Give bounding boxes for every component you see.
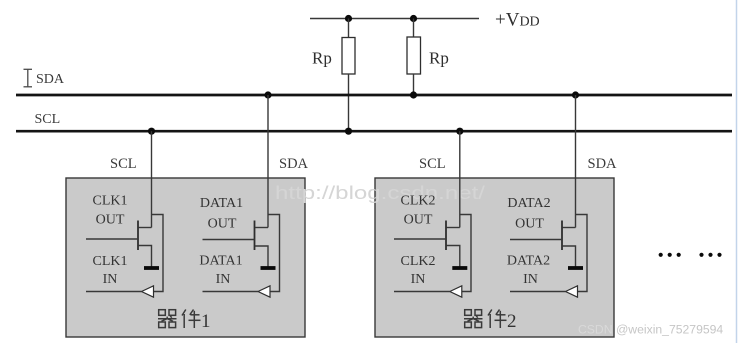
wire: DATA2 IN lead <box>510 291 566 293</box>
node: SCL / CLK1 pin junction <box>148 128 155 135</box>
svg-text:CLK1: CLK1 <box>93 254 128 269</box>
node: SDA / DATA2 pin junction <box>572 91 579 98</box>
svg-text:DATA1: DATA1 <box>200 196 243 211</box>
buffer U4 (DATA2 IN, points left) <box>566 286 578 297</box>
wire: CLK1 IN lead <box>86 291 142 293</box>
CELL: CLK1 driver/receiver <box>86 131 163 297</box>
wire: DATA2 pin from SDA bus to transistor Q4 drain (crosses SCL, no dot) <box>575 95 577 228</box>
node: SDA / Rp2 junction <box>410 91 417 98</box>
wire: CLK1 pin from SCL bus to transistor Q1 drain <box>151 131 153 227</box>
wire: Q1 source lead <box>139 246 152 267</box>
wire: jog from pin to buffer rail <box>152 215 164 292</box>
wire: DATA2 OUT gate lead <box>510 239 562 241</box>
svg-text:DATA1: DATA1 <box>199 254 242 269</box>
wire: Q4 drain lead <box>563 227 576 229</box>
svg-text:SCL: SCL <box>419 156 446 172</box>
node: SCL / CLK2 pin junction <box>456 128 463 135</box>
wire: Q4 source lead <box>563 246 576 267</box>
transistor Q4 gate bar <box>561 221 563 251</box>
svg-text:OUT: OUT <box>515 217 544 232</box>
node: junction VDD / Rp1 <box>345 15 352 22</box>
buffer U3 (CLK2 IN, points left) <box>450 286 462 297</box>
wire: jog from pin to buffer rail <box>460 215 471 292</box>
svg-text:SCL: SCL <box>35 112 61 127</box>
wire: jog from pin to buffer rail <box>268 215 280 292</box>
svg-text:DATA2: DATA2 <box>507 196 550 211</box>
wire: CLK2 OUT gate lead <box>394 238 446 240</box>
svg-text:OUT: OUT <box>404 213 433 228</box>
ground (Q1 source) <box>144 266 159 270</box>
device box 器件1 <box>66 178 305 337</box>
svg-text:SDA: SDA <box>279 156 309 172</box>
svg-text:2: 2 <box>507 311 517 332</box>
svg-text:IN: IN <box>216 272 231 287</box>
svg-text:OUT: OUT <box>96 213 125 228</box>
CELL: CLK2 driver/receiver <box>394 131 471 297</box>
ellipsis (more devices, group 2) <box>699 253 721 257</box>
wire: Rp2 top lead <box>413 19 415 38</box>
svg-text:1: 1 <box>201 311 211 332</box>
wire: Q2 drain lead <box>255 227 268 229</box>
transistor Q2 gate bar <box>254 221 256 251</box>
transistor Q1 gate bar <box>137 221 139 251</box>
ground (Q2 source) <box>261 266 276 270</box>
svg-text:CLK2: CLK2 <box>401 254 436 269</box>
transistor Q3 gate bar <box>445 221 447 251</box>
ellipsis (more devices, group 1) <box>659 253 681 257</box>
wire: CLK2 pin from SCL bus to transistor Q3 drain <box>459 131 461 227</box>
wire: Rp1 bottom lead down to SCL bus (crosses SDA, no dot) <box>348 74 350 131</box>
svg-text:Rp: Rp <box>429 49 449 68</box>
svg-text:CLK2: CLK2 <box>401 194 436 209</box>
wire: DATA1 OUT gate lead <box>203 239 255 241</box>
node: SDA / DATA1 pin junction <box>264 91 271 98</box>
text cursor I-beam <box>24 69 33 87</box>
svg-text:http://blog.csdn.net/: http://blog.csdn.net/ <box>275 183 485 203</box>
buffer U2 (DATA1 IN, points left) <box>258 286 270 297</box>
wire: +VDD supply rail <box>310 18 479 20</box>
svg-text:CLK1: CLK1 <box>93 194 128 209</box>
CELL: DATA1 driver/receiver <box>199 95 279 297</box>
ground (Q3 source) <box>452 266 467 270</box>
resistor Rp2 <box>407 37 421 74</box>
wire: Q3 source lead <box>447 246 460 267</box>
wire: SCL bus line <box>16 130 732 133</box>
svg-text:Rp: Rp <box>312 49 332 68</box>
wire: Q1 drain lead <box>139 227 152 229</box>
svg-text:DATA2: DATA2 <box>507 254 550 269</box>
svg-text:IN: IN <box>103 272 118 287</box>
ground (Q4 source) <box>568 266 583 270</box>
wire: DATA1 pin from SDA bus to transistor Q2 drain (crosses SCL, no dot) <box>267 95 269 228</box>
resistor Rp1 <box>342 38 355 75</box>
wire: CLK2 IN lead <box>394 291 450 293</box>
wire: Q2 source lead <box>255 246 268 267</box>
svg-text:SDA: SDA <box>588 156 618 172</box>
wire: jog from pin to buffer rail <box>576 215 588 292</box>
wire: SDA bus line <box>16 94 732 97</box>
svg-text:CSDN @weixin_75279594: CSDN @weixin_75279594 <box>578 323 723 337</box>
svg-text:SCL: SCL <box>110 156 137 172</box>
wire: Q3 drain lead <box>447 227 460 229</box>
svg-text:SDA: SDA <box>36 72 65 87</box>
wire: DATA1 IN lead <box>203 291 259 293</box>
wire: Rp1 top lead <box>348 19 350 39</box>
buffer U1 (CLK1 IN, points left) <box>142 286 154 297</box>
label 器件1 (device 1, drawn glyphs) <box>158 310 211 333</box>
wire: CLK1 OUT gate lead <box>86 238 138 240</box>
device box 器件2 <box>375 178 614 337</box>
wire: Rp2 bottom lead down to SDA bus <box>413 74 415 95</box>
svg-text:IN: IN <box>411 272 426 287</box>
CELL: DATA2 driver/receiver <box>507 95 587 297</box>
svg-text:OUT: OUT <box>208 217 237 232</box>
node: junction VDD / Rp2 <box>410 15 417 22</box>
svg-text:IN: IN <box>523 272 538 287</box>
page edge highlight line <box>736 0 738 343</box>
label 器件2 (device 2, drawn glyphs) <box>464 310 517 333</box>
node: SCL / Rp1 junction <box>345 128 352 135</box>
